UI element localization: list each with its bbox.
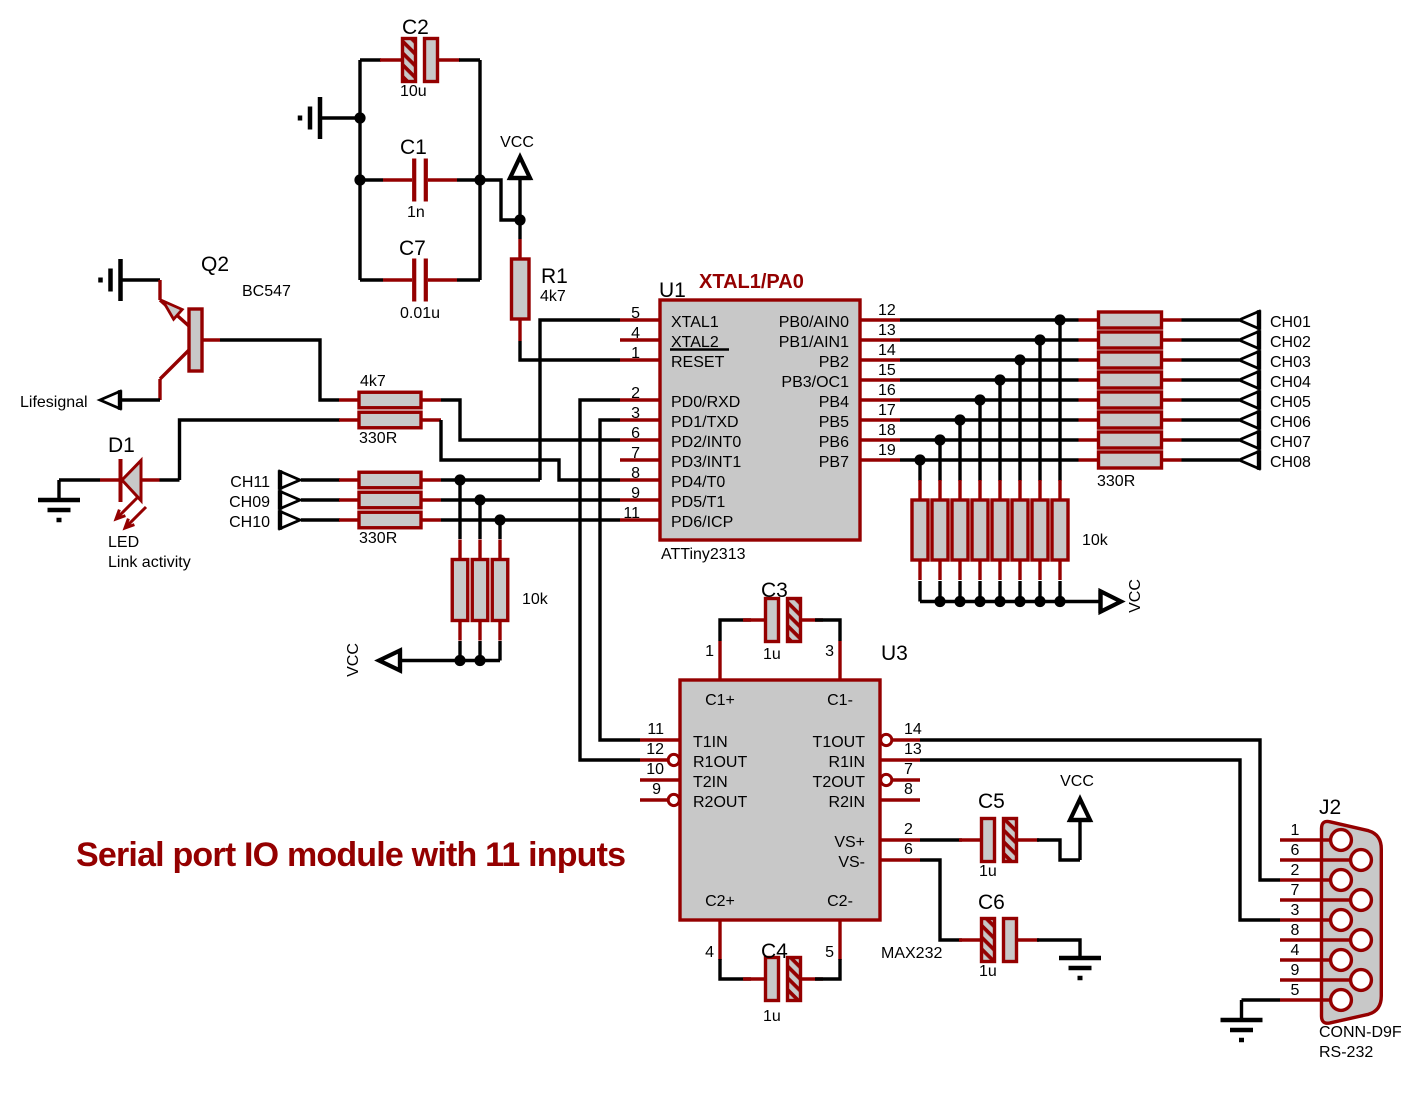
capacitor C3 [743,579,823,663]
node CH08 [1239,450,1311,471]
svg-text:12: 12 [646,741,664,758]
junction [474,655,485,666]
wire [1000,378,1079,381]
wire [180,420,341,480]
connector J2 CONN-D9F [1280,796,1402,1061]
wire [815,959,840,979]
svg-text:13: 13 [904,741,922,758]
svg-text:2: 2 [1291,862,1300,879]
svg-text:LED: LED [108,534,139,551]
svg-text:PB3/OC1: PB3/OC1 [781,374,849,391]
svg-text:CH10: CH10 [229,514,270,531]
svg-text:VCC: VCC [500,134,534,151]
junction [994,596,1005,607]
resistor 330R [1079,452,1182,468]
svg-text:3: 3 [1291,902,1300,919]
wire [938,581,941,602]
wire [918,581,921,602]
svg-text:10u: 10u [400,83,427,100]
wire [1182,358,1240,361]
junction [974,394,985,405]
svg-text:VCC: VCC [1127,579,1144,613]
svg-text:Lifesignal: Lifesignal [20,394,88,411]
wire [920,458,1079,461]
ground [1059,958,1101,978]
svg-text:R2OUT: R2OUT [693,794,747,811]
wire [122,398,161,401]
svg-text:T2IN: T2IN [693,774,728,791]
wire [960,418,1079,421]
svg-text:XTAL1/PA0: XTAL1/PA0 [699,271,804,293]
wire [1182,398,1240,401]
wire [57,480,60,500]
svg-text:PB2: PB2 [819,354,849,371]
svg-text:VS+: VS+ [834,834,865,851]
svg-text:ATTiny2313: ATTiny2313 [661,546,746,563]
net label XTAL1/PA0 [699,271,804,293]
wire [1182,458,1240,461]
svg-text:4: 4 [631,325,640,342]
wire [815,620,840,641]
svg-text:CH03: CH03 [1270,354,1311,371]
wire [160,478,180,481]
power VCC [500,134,534,178]
svg-text:VCC: VCC [345,643,362,677]
wire [720,620,751,641]
svg-text:PD0/RXD: PD0/RXD [671,394,740,411]
wire [900,458,920,461]
power VCC [345,643,400,677]
node CH06 [1239,410,1311,431]
wire [301,518,340,521]
junction [934,596,945,607]
svg-text:330R: 330R [1097,473,1135,490]
wire [998,380,1001,481]
svg-text:C1+: C1+ [705,692,735,709]
ground [300,97,320,139]
wire [900,358,1020,361]
IC U1 ATTiny2313 [620,279,900,563]
wire [600,420,640,740]
svg-text:4k7: 4k7 [360,373,386,390]
svg-text:U1: U1 [659,279,686,302]
value 330R [1097,473,1135,490]
resistor 330R [339,412,441,447]
wire [1240,1000,1243,1020]
svg-text:PD4/T0: PD4/T0 [671,474,725,491]
wire [1182,318,1240,321]
svg-text:13: 13 [878,322,896,339]
wire [441,400,620,440]
svg-text:J2: J2 [1319,796,1341,819]
wire [1040,338,1079,341]
wire [980,398,1079,401]
node CH09 [229,490,300,511]
svg-text:CONN-D9F: CONN-D9F [1319,1024,1402,1041]
wire [498,641,501,661]
svg-text:CH11: CH11 [230,474,270,491]
wire [458,480,461,539]
svg-text:10: 10 [646,761,664,778]
svg-text:2: 2 [631,385,640,402]
diode D1 [100,434,191,571]
svg-text:C4: C4 [761,940,788,963]
wire [358,60,361,280]
wire [441,498,480,501]
value 10k [522,591,549,608]
wire [900,418,960,421]
wire [1060,318,1079,321]
svg-text:5: 5 [631,305,640,322]
IC U3 MAX232 [640,641,942,962]
wire [1058,320,1061,481]
junction [974,596,985,607]
capacitor C2 [380,16,460,100]
svg-text:PB6: PB6 [819,434,849,451]
wire [500,518,620,521]
wire [478,500,481,539]
svg-text:6: 6 [904,841,913,858]
svg-text:R1OUT: R1OUT [693,754,747,771]
resistor 330R [1079,392,1182,408]
resistor 10k [1012,480,1028,580]
capacitor C6 [959,891,1039,980]
svg-text:VS-: VS- [838,854,865,871]
power VCC [1101,579,1145,613]
wire [918,460,921,481]
svg-text:11: 11 [623,505,640,522]
resistor 10k [472,540,488,641]
junction [354,174,365,185]
wire [920,740,1280,880]
svg-text:PB0/AIN0: PB0/AIN0 [779,314,849,331]
svg-text:XTAL1: XTAL1 [671,314,719,331]
wire [360,278,383,281]
ground [38,500,80,520]
resistor 10k [1032,480,1048,580]
wire [498,520,501,539]
wire [1182,378,1240,381]
junction [1034,334,1045,345]
svg-text:4: 4 [705,944,714,961]
svg-text:14: 14 [878,342,896,359]
svg-text:U3: U3 [881,642,908,665]
resistor 10k [952,480,968,580]
wire [900,398,980,401]
svg-text:C2+: C2+ [705,893,735,910]
svg-text:15: 15 [878,362,896,379]
svg-text:1u: 1u [979,863,997,880]
svg-text:Link activity: Link activity [108,554,191,571]
svg-text:CH05: CH05 [1270,394,1311,411]
wire [1078,820,1081,860]
svg-text:8: 8 [1291,922,1300,939]
wire [1018,581,1021,602]
resistor 10k [1052,480,1068,580]
svg-text:RS-232: RS-232 [1319,1044,1373,1061]
junction [914,454,925,465]
resistor 330R [1079,312,1182,328]
svg-text:PD3/INT1: PD3/INT1 [671,454,741,471]
svg-text:16: 16 [878,382,896,399]
ground [1221,1020,1263,1040]
svg-text:C5: C5 [978,790,1005,813]
svg-text:7: 7 [631,445,640,462]
svg-text:330R: 330R [359,530,397,547]
wire [1058,581,1061,602]
wire [480,498,620,501]
svg-text:C1-: C1- [827,692,853,709]
svg-text:4: 4 [1291,942,1300,959]
svg-text:T2OUT: T2OUT [813,774,866,791]
wire [900,378,1000,381]
wire [458,641,461,661]
wire [900,438,940,441]
svg-text:7: 7 [1291,882,1300,899]
resistor 10k [492,540,508,641]
wire [59,478,100,481]
wire [1018,360,1021,481]
svg-text:5: 5 [1291,982,1300,999]
svg-text:Serial port IO module with 11: Serial port IO module with 11 inputs [76,836,625,874]
svg-text:C3: C3 [761,579,788,602]
svg-text:CH01: CH01 [1270,314,1311,331]
capacitor C7 [383,237,457,322]
capacitor C5 [959,790,1039,880]
svg-text:CH06: CH06 [1270,414,1311,431]
resistor 10k [992,480,1008,580]
svg-text:1n: 1n [407,204,425,221]
wire [478,60,481,280]
capacitor C1 [383,136,457,221]
wire [360,58,381,61]
junction [514,214,525,225]
resistor 4k7 [339,373,441,408]
junction [1034,596,1045,607]
svg-text:VCC: VCC [1060,773,1094,790]
wire [958,581,961,602]
wire [441,478,460,481]
svg-text:1u: 1u [763,1008,781,1025]
resistor 330R [1079,432,1182,448]
resistor 10k [972,480,988,580]
transistor Q2 [160,253,291,400]
wire [518,178,521,220]
wire [441,420,620,480]
wire [400,659,500,662]
junction [454,474,465,485]
svg-text:CH09: CH09 [229,494,270,511]
wire [1182,438,1240,441]
wire [580,400,640,760]
svg-text:10k: 10k [1082,532,1109,549]
wire [220,340,339,400]
wire [1020,358,1079,361]
svg-text:19: 19 [878,442,896,459]
wire [540,320,620,480]
junction [1054,314,1065,325]
svg-text:0.01u: 0.01u [400,305,440,322]
svg-text:R2IN: R2IN [829,794,865,811]
power VCC [1060,773,1094,820]
junction [934,434,945,445]
wire [480,180,520,220]
svg-text:1: 1 [1291,822,1300,839]
wire [720,959,751,979]
ground [101,259,121,301]
wire [920,600,1100,603]
wire [1182,418,1240,421]
wire [360,178,383,181]
resistor 330R [1079,412,1182,428]
resistor 330R [1079,332,1182,348]
wire [459,58,480,61]
svg-text:12: 12 [878,302,896,319]
wire [978,400,981,481]
svg-text:14: 14 [904,721,922,738]
wire [518,220,521,239]
node Lifesignal [20,390,120,411]
svg-text:PB5: PB5 [819,414,849,431]
svg-text:18: 18 [878,422,896,439]
svg-text:C2: C2 [402,16,429,39]
wire [920,760,1280,920]
wire [1037,840,1080,860]
junction [474,174,485,185]
resistor 330R [339,492,441,508]
svg-text:RESET: RESET [671,354,725,371]
wire [958,420,961,481]
svg-text:10k: 10k [522,591,549,608]
svg-text:3: 3 [825,643,834,660]
wire [1242,998,1281,1001]
svg-text:3: 3 [631,405,640,422]
resistor 10k [452,540,468,641]
junction [494,514,505,525]
resistor 330R [339,512,441,528]
svg-text:C2-: C2- [827,893,853,910]
node CH07 [1239,430,1311,451]
wire [940,438,1079,441]
node CH05 [1239,390,1311,411]
svg-text:CH02: CH02 [1270,334,1311,351]
svg-text:CH08: CH08 [1270,454,1311,471]
node CH01 [1239,310,1311,331]
junction [1054,596,1065,607]
svg-text:PB4: PB4 [819,394,849,411]
value 330R [359,530,397,547]
wire [320,116,360,119]
svg-text:PB1/AIN1: PB1/AIN1 [779,334,849,351]
wire [938,440,941,481]
svg-text:T1IN: T1IN [693,734,728,751]
svg-text:9: 9 [1291,962,1300,979]
svg-text:PD1/TXD: PD1/TXD [671,414,739,431]
wire [301,498,340,501]
junction [474,494,485,505]
resistor R1 [512,239,568,341]
svg-text:8: 8 [631,465,640,482]
svg-text:MAX232: MAX232 [881,945,942,962]
junction [1014,354,1025,365]
junction [954,414,965,425]
svg-text:C6: C6 [978,891,1005,914]
svg-text:D1: D1 [108,434,135,457]
wire [441,518,500,521]
wire [1182,338,1240,341]
svg-text:2: 2 [904,821,913,838]
wire [978,581,981,602]
svg-text:5: 5 [825,944,834,961]
capacitor C4 [743,940,823,1025]
svg-text:R1IN: R1IN [829,754,865,771]
svg-text:7: 7 [904,761,913,778]
node CH10 [229,510,300,531]
svg-text:11: 11 [647,721,664,738]
svg-text:PB7: PB7 [819,454,849,471]
svg-text:PD6/ICP: PD6/ICP [671,514,733,531]
wire [1037,940,1080,958]
svg-text:6: 6 [1291,842,1300,859]
svg-text:8: 8 [904,781,913,798]
wire [900,318,1060,321]
svg-text:R1: R1 [541,265,568,288]
junction [454,655,465,666]
svg-text:6: 6 [631,425,640,442]
svg-text:1u: 1u [763,646,781,663]
wire [1038,340,1041,481]
junction [954,596,965,607]
resistor 10k [912,480,928,580]
node CH02 [1239,330,1311,351]
svg-text:1: 1 [705,643,714,660]
node CH03 [1239,350,1311,371]
wire [478,641,481,661]
svg-text:CH04: CH04 [1270,374,1311,391]
resistor 330R [1079,352,1182,368]
value 10k [1082,532,1109,549]
svg-text:9: 9 [631,485,640,502]
wire [920,838,962,841]
wire [520,341,620,360]
svg-text:1u: 1u [979,963,997,980]
svg-text:PD5/T1: PD5/T1 [671,494,725,511]
node CH04 [1239,370,1311,391]
node CH11 [230,470,300,491]
wire [457,278,480,281]
svg-text:C7: C7 [399,237,426,260]
svg-text:17: 17 [878,402,896,419]
wire [301,478,340,481]
svg-text:4k7: 4k7 [540,288,566,305]
junction [354,112,365,123]
wire [460,478,540,481]
svg-text:C1: C1 [400,136,427,159]
resistor 330R [339,472,441,488]
svg-text:330R: 330R [359,430,397,447]
resistor 330R [1079,372,1182,388]
wire [900,338,1040,341]
svg-text:PD2/INT0: PD2/INT0 [671,434,741,451]
svg-text:1: 1 [631,345,640,362]
svg-text:CH07: CH07 [1270,434,1311,451]
wire [1038,581,1041,602]
junction [1014,596,1025,607]
junction [994,374,1005,385]
resistor 10k [932,480,948,580]
svg-text:9: 9 [652,781,661,798]
title text [76,836,625,874]
